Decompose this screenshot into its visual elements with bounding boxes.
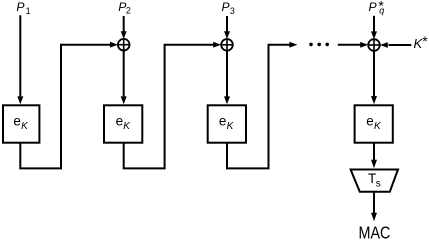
wire Pq* to XOR X4 [371,16,377,39]
encryption block U4 [355,105,393,142]
svg-text:P: P [369,0,378,14]
svg-text:P: P [16,0,25,14]
wire U2 output to XOR X3 [124,42,222,169]
svg-text:*: * [422,33,428,49]
wire P2 to XOR X2 [121,16,127,39]
svg-text:2: 2 [126,6,131,16]
wire Ts to MAC output [371,193,377,222]
wire ellipsis to XOR X4 [338,42,368,48]
ellipsis dots [309,43,329,47]
wire P1 to block U1 [17,15,23,104]
label eK of U2 [116,114,132,133]
encryption block U2 [104,105,142,142]
svg-text:q: q [379,6,384,16]
node P2 label [118,0,131,16]
label eK of U4 [366,114,382,133]
svg-text:MAC: MAC [359,224,391,240]
XOR gate X4 [368,39,380,51]
svg-text:3: 3 [230,6,235,16]
wire XOR X2 to block U2 [121,51,127,105]
node K* label [414,33,429,51]
node Pq* label [369,0,385,16]
svg-text:e: e [219,114,227,129]
XOR gate X3 [221,39,233,51]
wire K* to XOR X4 [380,42,412,48]
node P1 label [16,0,30,16]
wire U4 to truncation Ts [371,143,377,168]
encryption block U3 [208,105,246,142]
node P3 label [222,0,235,16]
wire U1 output to XOR X2 [20,42,118,169]
svg-text:e: e [13,114,21,129]
svg-text:e: e [366,114,374,129]
wire U3 output toward ellipsis [227,42,297,169]
label eK of U3 [219,114,235,133]
wire P3 to XOR X3 [224,16,230,39]
XOR gate X2 [118,39,130,51]
svg-text:s: s [376,179,381,190]
label Ts [368,171,381,189]
truncation block Ts (trapezoid) [351,170,398,192]
wire XOR X4 to block U4 [371,51,377,105]
label eK of U1 [13,114,29,133]
svg-text:e: e [116,114,124,129]
svg-text:1: 1 [26,6,31,16]
wire XOR X3 to block U3 [224,51,230,105]
encryption block U1 [3,105,39,142]
